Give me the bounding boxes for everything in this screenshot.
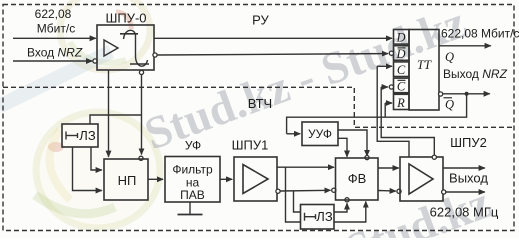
block УУФ: [302, 122, 338, 146]
wire НП out to Фильтр: [148, 178, 163, 180]
block Фильтр на ПАВ: [165, 157, 220, 203]
node bubble ФВ left: [332, 188, 336, 192]
node bubble ШПУ-0 bottom: [139, 70, 143, 74]
node bubble ФВ bottom: [345, 198, 349, 202]
svg-text:ПАВ: ПАВ: [180, 188, 205, 202]
block ШПУ-0: [97, 11, 154, 71]
TT pin box C: [394, 62, 410, 77]
node bubble ФВ top: [365, 156, 369, 160]
wire ФВ out2 to ШПУ2 bubble: [378, 190, 396, 193]
block ФВ: [336, 158, 379, 200]
svg-text:РУ: РУ: [252, 13, 269, 28]
svg-text:622,08 МГц: 622,08 МГц: [430, 205, 499, 220]
svg-text:Q: Q: [445, 50, 454, 64]
junction dot on Q-bar wire: [465, 92, 469, 96]
svg-text:УФ: УФ: [185, 139, 201, 153]
svg-text:ЛЗ: ЛЗ: [79, 128, 96, 143]
svg-text:Мбит/с: Мбит/с: [37, 22, 75, 36]
wire НЛЗ2 out to ФВ bottom circle: [334, 203, 347, 212]
svg-text:R: R: [396, 96, 405, 110]
wire ШПУ-0 bottom right to НП top: [141, 75, 143, 155]
watermark logo bottom-left: [35, 112, 160, 228]
watermark logo top-left: [60, 0, 150, 70]
svg-text:C: C: [397, 79, 406, 93]
wire УУФ out1 to ФВ top circle: [338, 130, 367, 156]
svg-text:Выход NRZ: Выход NRZ: [443, 67, 508, 81]
node bubble ШПУ2 bottom right: [442, 190, 446, 194]
wire input 1: [13, 37, 96, 39]
svg-text:Фильтр: Фильтр: [172, 163, 213, 177]
svg-text:ШПУ1: ШПУ1: [232, 138, 269, 153]
svg-text:D: D: [395, 47, 405, 61]
node bubble ШПУ2 top: [432, 155, 436, 159]
svg-text:Stud.kz - Stud.kz: Stud.kz - Stud.kz: [138, 0, 473, 159]
node bubble at ШПУ-0 input 2: [93, 59, 97, 63]
watermark blue band top-left: [0, 45, 114, 113]
svg-text:ШПУ-0: ШПУ-0: [105, 11, 146, 26]
delay line НЛЗ1: [62, 124, 98, 147]
wire ШПУ1 out bottom to ФВ: [280, 189, 330, 192]
node bubble ШПУ-0 output 2: [153, 53, 157, 57]
wire Фильтр out to ШПУ1: [220, 178, 232, 180]
svg-text:НП: НП: [118, 173, 137, 188]
wire input 2: [13, 60, 92, 62]
wire Q-bar feedback to УУФ: [287, 94, 467, 134]
wire Q output: [439, 45, 491, 47]
svg-text:ВТЧ: ВТЧ: [248, 96, 272, 111]
inversion bubble C-bar: [389, 85, 393, 89]
limiter waveform symbol in ШПУ-0: [120, 30, 149, 66]
block НП: [104, 159, 148, 200]
wire НЛЗ2 out to ФВ bottom right: [334, 202, 366, 223]
TT pin box D: [394, 30, 410, 45]
wire branch top line to НЛЗ2 lower input: [286, 167, 301, 222]
svg-text:622,08: 622,08: [35, 7, 72, 21]
ground under Фильтр: [178, 202, 203, 215]
svg-text:D: D: [395, 31, 405, 45]
node bubble ШПУ2 left: [397, 189, 401, 193]
flip-flop TT main box: [409, 30, 439, 111]
wire ШПУ-0 out2 to D-bar input of TT: [157, 54, 388, 55]
TT pin box D-bar: [394, 46, 410, 61]
wire C input net from ШПУ2 top: [377, 66, 409, 157]
svg-text:Q: Q: [445, 98, 454, 112]
wire ШПУ-0 bottom left to НП top: [108, 70, 110, 157]
wire R input stub: [385, 103, 392, 117]
svg-text:C: C: [397, 63, 406, 77]
wire ШПУ1 out top to ФВ: [277, 166, 334, 168]
svg-text:TT: TT: [417, 58, 432, 72]
inversion bubble Q-bar: [439, 92, 443, 96]
svg-text:Вход NRZ: Вход NRZ: [27, 46, 83, 60]
svg-text:Выход: Выход: [449, 171, 488, 186]
node bubble ШПУ1 out bottom: [276, 189, 280, 193]
inversion bubble D-bar: [389, 51, 393, 55]
node bubble at НП top: [139, 156, 143, 160]
wire Q-bar output: [443, 93, 490, 95]
wire НЛЗ1 out B to НП left upper: [91, 147, 102, 170]
wire C-bar input net from ШПУ2 top circle: [381, 87, 434, 155]
svg-text:УУФ: УУФ: [308, 127, 332, 141]
wire tap to НЛЗ1: [90, 115, 142, 124]
amplifier triangle in ШПУ-0: [104, 40, 118, 56]
amplifier triangle in ШПУ2: [409, 164, 433, 194]
wire ШПУ-0 out1 to D input of TT: [154, 37, 392, 39]
wire ШПУ2 out bottom (Выход): [446, 191, 485, 193]
amplifier triangle in ШПУ1: [243, 165, 268, 194]
svg-text:622,08 Мбит/с: 622,08 Мбит/с: [441, 27, 519, 41]
TT pin box R: [394, 94, 410, 110]
label Q-bar: [444, 98, 455, 112]
wire УУФ out2 to ФВ top left: [338, 138, 347, 156]
delay line НЛЗ2: [301, 205, 335, 230]
block ШПУ1: [232, 138, 277, 202]
label 622,08 Мбит/с (input): [35, 7, 76, 36]
block ШПУ2: [400, 135, 487, 201]
TT pin box C-bar: [394, 78, 410, 93]
svg-text:ЛЗ: ЛЗ: [316, 209, 333, 224]
wire ШПУ2 out top (Выход): [443, 167, 485, 169]
wire branch bottom line to НЛЗ2 upper input: [294, 191, 301, 212]
dashed section divider (РУ / ВТЧ): [3, 87, 514, 127]
wire НЛЗ1 out A to НП left lower: [73, 147, 102, 191]
wire ФВ out1 to ШПУ2: [378, 167, 399, 169]
svg-text:ФВ: ФВ: [348, 171, 367, 186]
svg-text:ШПУ2: ШПУ2: [450, 135, 487, 150]
